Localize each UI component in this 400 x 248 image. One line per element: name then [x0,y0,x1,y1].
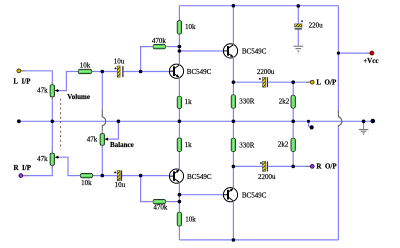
transistor Q3 BC549C [169,168,183,183]
wire R out row left [233,165,262,167]
wire right ground stub [363,121,365,129]
wire L out row left [233,81,262,83]
potentiometer 47k volume R [50,151,59,168]
wire 2k2 L [292,82,294,121]
node ground rail / balance wiper [117,120,121,124]
transistor Q1 BC549C [169,64,183,79]
node L signal / balance [101,70,105,74]
svg-text:470k: 470k [152,37,167,45]
node L collector / Q2 base [178,49,182,53]
terminal L O/P [306,81,310,83]
wire Q2 emitter to L out node [232,58,234,83]
svg-text:L O/P: L O/P [316,78,337,86]
resistor 10k collector load R [177,212,182,226]
wire R input [23,166,53,176]
svg-text:1k: 1k [185,98,193,106]
resistor 330R R [231,138,236,151]
node L signal / 470k [139,70,143,74]
svg-text:BC549C: BC549C [242,47,267,55]
wire 330R L [232,82,234,121]
resistor 10k collector load L [177,21,182,35]
wire Q4 collector to bottom rail [232,201,234,240]
svg-text:L I/P: L I/P [13,78,31,86]
node top rail / Q2 collector [232,4,236,8]
node ground rail / 2k2 column [291,120,295,124]
transistor Q4 BC549C [223,187,237,202]
wire Q1 collector column [178,34,180,64]
svg-text:BC549C: BC549C [187,173,212,181]
ground symbol under 220u [294,46,304,53]
node bottom rail / Q4 collector [232,238,236,242]
svg-text:10k: 10k [81,179,92,187]
wire R 10u cap to Q3 base [122,175,170,177]
svg-text:2k2: 2k2 [278,141,289,149]
wire 10k L load to top rail [178,6,180,21]
wire L input [21,71,53,84]
wire Vcc right vertical lower [337,127,339,240]
wire 220u bottom lead to ground [297,29,299,45]
wire ground rail [19,120,373,122]
wire R wiper to 10k [57,157,78,175]
resistor 2k2 R [291,138,296,151]
node top rail / 220u [297,4,301,8]
svg-text:2200u: 2200u [257,68,275,76]
capacitor 2200u L [259,77,268,87]
svg-text:10u: 10u [114,58,125,66]
capacitor 10u R [114,171,121,181]
wire 10k R load to bottom rail [178,226,180,240]
wire R 470k right to collector node [168,201,179,203]
wire 220u top lead [297,6,299,24]
svg-text:2200u: 2200u [258,173,276,181]
resistor 1k R [177,138,182,152]
wire L wiper to 10k [57,72,76,91]
wire Vcc right vertical upper [337,6,339,111]
wire Q2 base tap [179,50,223,52]
wire L 10u cap to Q1 base [124,71,170,73]
node ground rail / 330R column [232,120,236,124]
resistor 470k R [150,199,168,204]
node L out / Q2 emitter [232,80,236,84]
wire L 470k right to collector node [168,46,179,48]
wire 2k2 R [292,121,294,166]
svg-text:BC549C: BC549C [242,191,267,199]
wire 1k R to ground rail [178,121,180,138]
svg-text:330R: 330R [239,142,255,150]
terminal R O/P [306,165,310,167]
capacitor 220u [295,20,304,29]
svg-text:10k: 10k [185,215,196,223]
gang dashed line volume [60,99,62,150]
resistor 470k L [150,44,168,49]
wire bottom rail +V [179,239,338,241]
wire R out row right [268,165,310,167]
node R collector / Q4 base [178,193,182,197]
node R out / 2k2 [291,165,295,169]
node ground rail / volume pots [51,120,55,124]
capacitor 2200u R [260,161,268,171]
svg-text:470k: 470k [153,204,168,212]
wire balance wiper to ground rail [107,121,119,139]
wire Q4 emitter to R out node [232,166,234,188]
ground symbol right [359,130,369,135]
resistor 10k wiper L [76,69,94,74]
terminal R I/P [23,175,27,177]
wire R 10k to 10u cap [95,175,118,177]
wire Q3 collector column [178,183,180,212]
wire Q2 collector to top rail [232,6,234,45]
svg-text:47k: 47k [87,136,98,144]
wire balance top lead [101,127,103,133]
wire 1k L to ground rail [178,109,180,122]
node ground rail left end [17,119,21,123]
svg-text:10u: 10u [115,181,126,189]
node ground rail / test stub [307,120,310,123]
terminal L I/P [21,70,25,72]
node test stub end [310,125,314,129]
svg-text:220u: 220u [309,22,324,30]
svg-text:R I/P: R I/P [14,164,32,172]
potentiometer 47k volume L [50,82,59,99]
node ground rail / right ground [362,120,366,124]
svg-text:47k: 47k [37,155,48,163]
capacitor 10u L [114,66,123,77]
svg-text:10k: 10k [185,23,196,31]
node Vcc stub [337,52,340,55]
wire L out row right [268,81,310,83]
transistor Q2 BC549C [223,43,237,58]
svg-text:47k: 47k [37,87,48,95]
node L out / 2k2 [291,80,295,84]
wire 330R R [232,121,234,166]
resistor 330R L [231,95,236,108]
wire R 470k feedback left leg [141,176,151,202]
wire Q4 base tap [179,194,223,196]
svg-text:330R: 330R [239,98,255,106]
wire test stub on ground rail [309,121,311,127]
node R signal / balance [101,174,105,178]
node R out / Q4 emitter [232,165,236,169]
node R collector / 470k [178,200,182,204]
svg-text:BC549C: BC549C [187,68,212,76]
svg-text:1k: 1k [185,141,193,149]
node L collector / 470k [178,45,182,49]
svg-text:2k2: 2k2 [279,98,290,106]
wire L 10k to 10u cap [94,71,117,73]
node ground rail / 1k column [178,120,182,124]
wire +Vcc stub [338,52,370,54]
node R signal / 470k [139,174,143,178]
svg-text:R O/P: R O/P [316,163,337,171]
potentiometer 47k balance [100,134,108,146]
svg-text:10k: 10k [80,61,91,69]
svg-text:Volume: Volume [67,93,90,101]
wire Q3 emitter to 1k [178,152,180,170]
resistor 2k2 L [291,95,296,108]
wire balance jog over ground rail [102,110,105,128]
wire L 470k feedback left leg [141,47,151,72]
svg-text:+Vcc: +Vcc [363,57,378,65]
wire balance top drop [101,72,103,111]
resistor 1k L [177,96,182,108]
terminal +Vcc [366,52,370,54]
wire top rail +V [179,5,338,7]
resistor 10k wiper R [78,173,94,178]
wire L pot bottom to ground rail to R pot top [51,98,53,153]
wire balance bottom to R row [101,145,103,175]
node ground rail right end [371,119,376,124]
wire Q1 emitter to 1k [178,78,180,96]
wire Vcc crossover jog [338,111,341,127]
svg-text:Balance: Balance [110,141,134,149]
